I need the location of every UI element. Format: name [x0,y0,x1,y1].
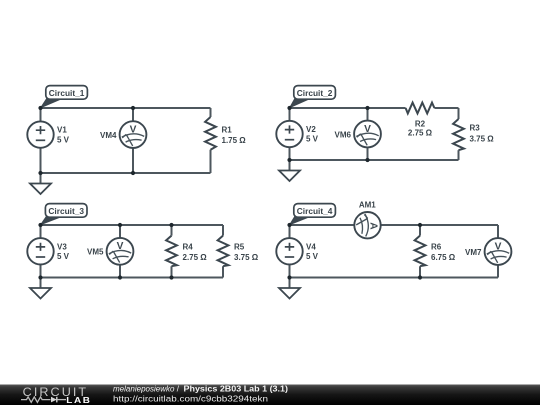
wire [40,108,42,173]
node c3 r4-top [169,223,173,227]
svg-text:R4: R4 [183,242,194,251]
svg-text:http://circuitlab.com/c9cbb329: http://circuitlab.com/c9cbb3294tekn [113,395,268,404]
node c2 top-left [287,106,291,110]
svg-text:R5: R5 [234,242,245,251]
svg-text:R1: R1 [222,125,233,134]
svg-text:5 V: 5 V [306,135,319,144]
svg-text:R6: R6 [431,242,442,251]
ground [30,173,51,194]
node c4 bottom-left [287,275,291,279]
node c2 vm6-bottom [365,158,369,162]
svg-text:V3: V3 [57,242,67,251]
svg-text:V: V [117,241,124,252]
node c4 top-left [287,223,291,227]
svg-text:5 V: 5 V [57,252,70,261]
label Circuit_3 [41,204,87,225]
voltmeter VM4 [100,121,146,148]
resistor R2 [406,103,435,138]
node c1 top-left [38,106,42,110]
node c4 r6-top [418,223,422,227]
node c1 vm4-top [131,106,135,110]
resistor R5 [218,236,259,267]
voltage source V4 [276,238,318,264]
voltage source V2 [276,121,318,147]
wire [41,224,224,226]
svg-text:1.75 Ω: 1.75 Ω [222,136,247,145]
wire [497,225,499,238]
wire [40,225,42,278]
svg-text:Circuit_4: Circuit_4 [297,207,333,216]
wire [290,224,355,226]
node c3 vm5-bottom [118,275,122,279]
wire [210,108,212,117]
svg-text:V: V [364,124,371,135]
label Circuit_1 [41,86,88,108]
svg-text:3.75 Ω: 3.75 Ω [470,135,495,144]
wire [434,107,458,109]
resistor R6 [415,236,456,267]
wire [119,225,121,278]
node c3 r4-bottom [169,275,173,279]
ground [279,278,300,299]
node c2 vm6-top [365,106,369,110]
svg-text:V: V [495,241,502,252]
wire [289,225,291,278]
wire [497,265,499,277]
svg-text:V: V [130,124,137,135]
resistor R4 [166,236,207,267]
svg-text:Circuit_2: Circuit_2 [297,89,333,98]
wire [367,108,369,160]
svg-text:Circuit_3: Circuit_3 [48,207,84,216]
node c4 r6-bottom [418,275,422,279]
wire [41,277,224,279]
node c1 bottom-left [38,171,42,175]
svg-text:6.75 Ω: 6.75 Ω [431,253,456,262]
label Circuit_2 [290,86,336,108]
wire [290,277,499,279]
svg-text:VM6: VM6 [335,130,352,139]
svg-text:3.75 Ω: 3.75 Ω [234,253,259,262]
resistor R3 [453,119,494,150]
ground [279,160,300,181]
wire [222,266,224,277]
svg-text:Circuit_1: Circuit_1 [49,89,85,98]
svg-text:2.75 Ω: 2.75 Ω [408,129,433,138]
svg-text:melanieposiewko/Physics 2B03 L: melanieposiewko/Physics 2B03 Lab 1 (3.1) [113,385,288,394]
ground [30,278,51,299]
wire [290,159,459,161]
svg-text:V1: V1 [57,126,67,135]
ammeter AM1 [354,201,380,239]
resistor R1 [205,117,246,150]
svg-text:R2: R2 [415,119,426,128]
svg-text:A: A [368,222,379,230]
svg-text:VM7: VM7 [465,248,482,257]
footer bar [0,385,540,405]
node c1 vm4-bottom [131,171,135,175]
node c2 bottom-left [287,158,291,162]
wire [132,108,134,173]
voltmeter VM5 [87,238,133,265]
node c3 bottom-left [38,275,42,279]
node c3 vm5-top [118,223,122,227]
svg-text:AM1: AM1 [359,201,376,210]
svg-text:R3: R3 [470,123,481,132]
label Circuit_4 [290,204,336,225]
wire [210,150,212,173]
wire [289,108,291,160]
wire [458,108,460,119]
node c3 top-left [38,223,42,227]
wire [41,107,211,109]
svg-text:VM5: VM5 [87,248,104,257]
svg-text:LAB: LAB [66,396,91,405]
wire [458,150,460,160]
svg-text:5 V: 5 V [57,135,70,144]
wire [381,224,498,226]
voltage source V1 [27,121,69,147]
voltmeter VM6 [335,121,381,148]
svg-text:V2: V2 [306,125,316,134]
wire [419,225,421,278]
svg-text:V4: V4 [306,242,316,251]
svg-text:5 V: 5 V [306,252,319,261]
svg-text:2.75 Ω: 2.75 Ω [183,253,208,262]
wire [171,225,173,278]
wire [41,172,211,174]
wire [290,107,406,109]
wire [222,225,224,236]
voltage source V3 [27,238,69,264]
logo resistor-diode line [21,397,66,403]
voltmeter VM7 [465,238,511,265]
svg-text:VM4: VM4 [100,131,117,140]
